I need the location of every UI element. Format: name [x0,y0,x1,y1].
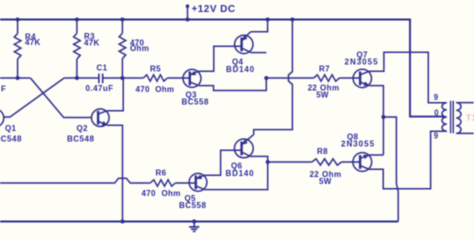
svg-text:9: 9 [434,93,439,102]
svg-text:5W: 5W [319,177,332,186]
svg-text:BD140: BD140 [226,65,255,74]
svg-text:47K: 47K [25,38,41,47]
svg-text:+12V DC: +12V DC [192,4,236,15]
svg-text:5W: 5W [316,90,329,99]
svg-text:9: 9 [434,132,439,141]
svg-text:R7: R7 [319,64,330,73]
svg-text:BC548: BC548 [0,135,22,144]
svg-text:T1: T1 [466,113,474,123]
svg-text:C1: C1 [97,64,108,73]
svg-text:470: 470 [136,85,150,94]
svg-text:Ohm: Ohm [162,189,181,198]
svg-text:BC558: BC558 [182,98,209,107]
svg-text:BD140: BD140 [226,169,255,178]
svg-text:BC558: BC558 [179,201,206,210]
svg-text:2N3055: 2N3055 [341,140,375,149]
svg-text:R8: R8 [317,147,328,156]
svg-text:2N3055: 2N3055 [345,57,379,66]
svg-text:22: 22 [310,170,320,179]
svg-text:Ohm: Ohm [155,85,174,94]
svg-text:Q1: Q1 [5,124,17,133]
svg-text:BC548: BC548 [67,135,94,144]
svg-text:470: 470 [142,189,156,198]
svg-text:F: F [1,85,6,94]
svg-text:47K: 47K [84,38,100,47]
svg-text:Q2: Q2 [77,124,89,133]
svg-text:0.47uF: 0.47uF [86,84,114,93]
svg-text:Ohm: Ohm [130,44,149,53]
svg-text:R5: R5 [150,65,161,74]
svg-text:R6: R6 [156,168,167,177]
svg-text:0: 0 [434,108,439,117]
